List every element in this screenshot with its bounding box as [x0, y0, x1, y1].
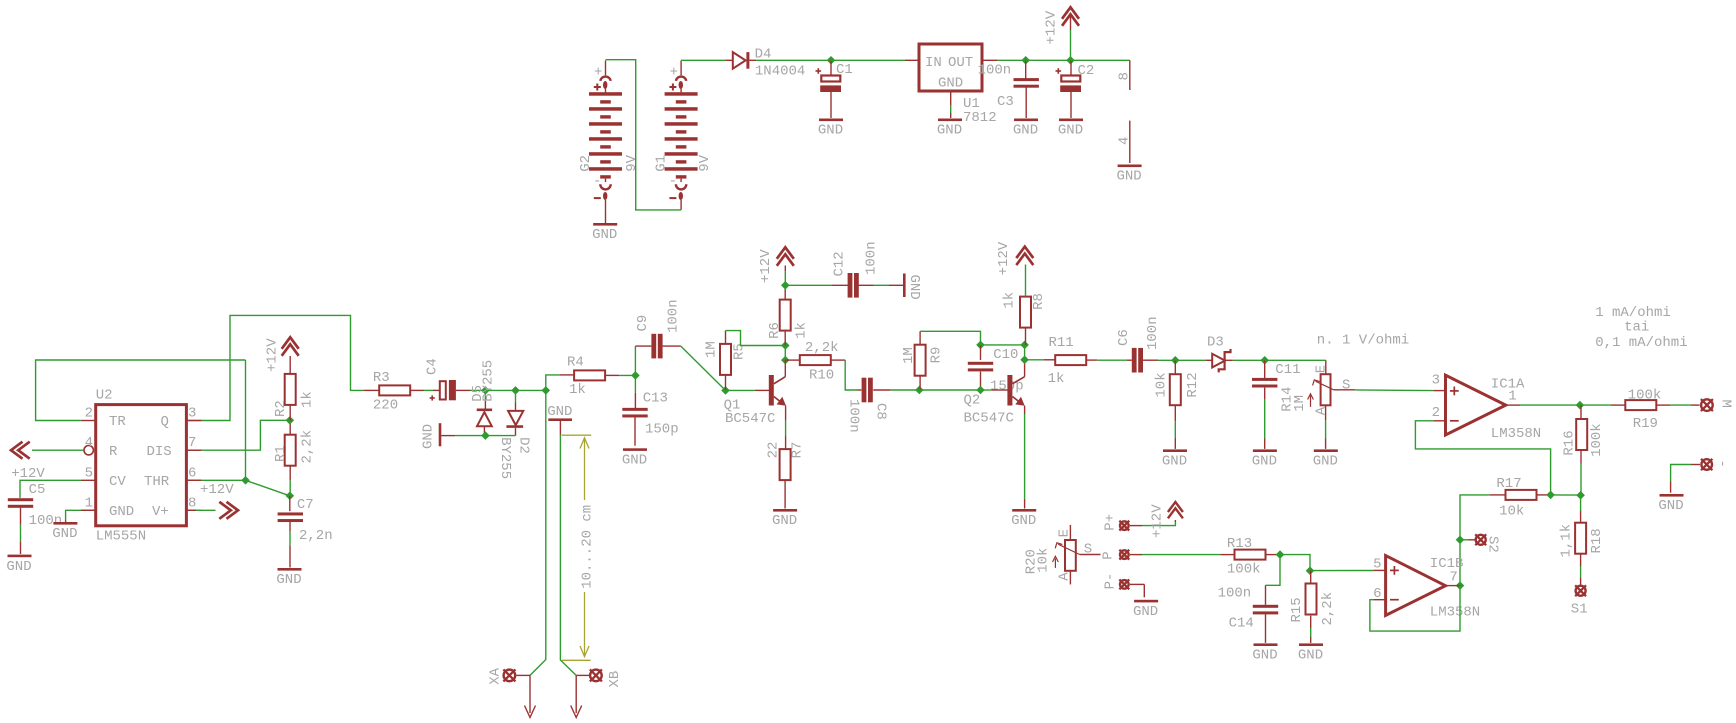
svg-text:BY255: BY255	[480, 360, 496, 402]
svg-text:P+: P+	[1103, 514, 1119, 531]
junction node R6 bottom	[781, 341, 790, 350]
resistor R2	[285, 356, 296, 420]
label n. 1 V/ohmi	[1317, 332, 1409, 348]
label +12V at P+	[1150, 504, 1166, 538]
diode D4	[726, 52, 757, 69]
resistor R19	[1625, 400, 1699, 410]
svg-text:-: -	[1714, 460, 1730, 468]
label C5	[29, 482, 46, 498]
label R3	[373, 370, 390, 386]
label C2	[1078, 63, 1095, 79]
svg-text:+12V: +12V	[1044, 10, 1060, 44]
capacitor C14	[1253, 605, 1278, 643]
ground GND at U1	[937, 119, 962, 139]
svg-text:S: S	[1084, 541, 1092, 557]
label R16 value 100k	[1589, 423, 1605, 457]
label D3	[1207, 335, 1224, 351]
svg-text:1M: 1M	[703, 341, 719, 358]
resistor R11	[1055, 355, 1097, 365]
label R12	[1185, 372, 1201, 397]
svg-text:100n: 100n	[846, 399, 862, 433]
ground GND rotated at C12	[903, 274, 906, 298]
svg-text:GND: GND	[592, 227, 617, 243]
label C8	[873, 403, 889, 420]
svg-text:1 mA/ohmi: 1 mA/ohmi	[1595, 305, 1671, 321]
ground GND at C14	[1252, 643, 1277, 663]
voltage regulator U1 7812	[919, 44, 982, 118]
label R19	[1633, 416, 1658, 432]
potentiometer R14	[1265, 360, 1356, 449]
wire C2 node to pin 8 stub	[1071, 59, 1130, 61]
pin number 3	[1432, 373, 1440, 389]
svg-text:IN: IN	[925, 55, 942, 71]
label S1	[1571, 602, 1588, 618]
potentiometer R20	[1053, 525, 1101, 585]
pad I and ground	[1671, 459, 1713, 493]
svg-text:150p: 150p	[645, 421, 679, 437]
svg-text:M: M	[1718, 400, 1734, 408]
label R1 value 2,2k	[300, 430, 316, 464]
junction node R12	[1171, 356, 1180, 365]
label R14 terminal A	[1313, 406, 1329, 415]
svg-text:R4: R4	[567, 355, 584, 371]
svg-text:Q: Q	[161, 414, 169, 430]
resistor R13	[1220, 550, 1280, 560]
label Q1 value BC547C	[725, 411, 775, 427]
label R9	[929, 347, 945, 364]
svg-text:E: E	[1313, 365, 1329, 373]
label R20 terminal A	[1057, 572, 1073, 581]
svg-text:BC547C: BC547C	[964, 410, 1014, 426]
svg-text:P: P	[1100, 551, 1116, 559]
label R11	[1049, 335, 1074, 351]
label C9	[635, 315, 651, 332]
svg-text:-: -	[669, 174, 677, 190]
label GND at C12	[906, 275, 922, 300]
svg-text:100n: 100n	[666, 299, 682, 333]
resistor R9	[915, 331, 926, 390]
label C6	[1116, 329, 1132, 346]
wire P- to ground	[1130, 584, 1145, 597]
svg-text:6: 6	[188, 465, 196, 481]
ground GND at pad I	[1658, 494, 1683, 514]
label G1	[653, 155, 669, 172]
label R13	[1227, 536, 1252, 552]
wire Q1 base	[726, 389, 755, 391]
pin number 4	[1117, 137, 1133, 145]
resistor R6	[780, 285, 791, 345]
wire R13 node to C14	[1266, 555, 1281, 605]
resistor R18	[1575, 495, 1586, 586]
wire C4 to D5 node	[470, 389, 485, 391]
wire R14 wiper to IC1A	[1355, 389, 1445, 392]
wire S2 node to IC1B out	[1459, 540, 1461, 586]
wire R8 node down	[1024, 345, 1026, 360]
resistor R7	[780, 449, 791, 480]
svg-text:2,2k: 2,2k	[1320, 592, 1336, 626]
pad XA	[503, 669, 515, 681]
battery G2	[589, 61, 622, 224]
label C3	[997, 94, 1014, 110]
svg-text:C8: C8	[873, 403, 889, 420]
svg-text:2: 2	[1432, 405, 1440, 421]
svg-text:U2: U2	[96, 388, 113, 404]
label C10	[993, 347, 1018, 363]
pin number 7	[1449, 569, 1457, 585]
resistor R16	[1576, 405, 1587, 495]
label Q2 value BC547C	[964, 410, 1014, 426]
svg-text:C7: C7	[297, 497, 314, 513]
label C11	[1275, 362, 1300, 378]
label R18	[1589, 528, 1605, 553]
pin number 8	[1117, 72, 1133, 80]
label +12V at R2	[265, 338, 281, 372]
label GND rotated	[421, 424, 437, 449]
label R14 terminal E	[1313, 365, 1329, 373]
svg-text:+12V: +12V	[265, 338, 281, 372]
label R14 value 1M	[1292, 395, 1308, 412]
junction node C3	[1021, 56, 1030, 65]
ground GND at R14	[1313, 449, 1338, 469]
label R5 value 1M	[703, 341, 719, 358]
junction node THR	[241, 476, 250, 485]
junction node C9	[631, 371, 640, 380]
wire U1 OUT to C3 node	[982, 59, 1026, 61]
label M	[1718, 400, 1734, 408]
svg-text:+12V: +12V	[11, 466, 45, 482]
label C7	[297, 497, 314, 513]
label R12 value 10k	[1154, 372, 1170, 397]
junction node D5 bottom	[481, 431, 490, 440]
svg-text:IC1B: IC1B	[1430, 556, 1464, 572]
label D5	[470, 385, 486, 402]
junction node Q1 base	[721, 386, 730, 395]
wire THR pin6	[186, 479, 245, 481]
svg-text:R15: R15	[1289, 597, 1305, 622]
diode D5	[477, 390, 492, 435]
ground GND at C7	[276, 568, 301, 588]
label R4	[567, 355, 584, 371]
label minus pad	[1714, 460, 1730, 468]
wire THR vertical net	[245, 360, 247, 480]
label R20 terminal E	[1057, 529, 1073, 537]
svg-text:100n: 100n	[1145, 316, 1161, 350]
svg-text:6: 6	[1373, 586, 1381, 602]
wire clip ground net	[455, 435, 515, 437]
label C9 value 100n	[666, 299, 682, 333]
svg-text:1k: 1k	[569, 382, 586, 398]
supply +12V at R8	[1016, 247, 1033, 266]
ground GND rotated at D5 D2	[439, 423, 456, 446]
junction node R8 bottom	[1020, 341, 1029, 350]
svg-text:1M: 1M	[901, 347, 917, 364]
label R14 terminal S	[1342, 378, 1350, 394]
label P	[1100, 551, 1116, 559]
wire R5 top to R6 node	[726, 331, 786, 346]
svg-text:GND: GND	[1298, 648, 1323, 664]
svg-text:GND: GND	[1252, 648, 1277, 664]
ground GND at C11	[1252, 449, 1277, 469]
resistor R10	[785, 355, 845, 365]
junction node Q2 collector	[1020, 356, 1029, 365]
label R6 value 1k	[794, 322, 810, 339]
svg-text:LM358N: LM358N	[1491, 426, 1541, 442]
label C3 value 100n	[978, 63, 1012, 79]
capacitor C6	[1132, 348, 1176, 373]
label R9 value 1M	[901, 347, 917, 364]
svg-text:R3: R3	[373, 370, 390, 386]
svg-text:100n: 100n	[864, 241, 880, 275]
ground GND at C5	[6, 555, 31, 575]
label G2	[578, 155, 594, 172]
svg-text:2,2k: 2,2k	[300, 430, 316, 464]
svg-text:tai: tai	[1624, 319, 1649, 335]
svg-text:3: 3	[1432, 373, 1440, 389]
svg-text:GND: GND	[52, 526, 77, 542]
label G1 value 9V	[697, 154, 713, 171]
svg-text:100n: 100n	[978, 63, 1012, 79]
ground GND at R12	[1162, 449, 1187, 469]
wire R12 node to D3	[1175, 359, 1212, 361]
supply +12V at P+	[1130, 502, 1183, 526]
wire R17 to R18 node	[1551, 494, 1581, 496]
junction node C11	[1260, 356, 1269, 365]
label R17 value 10k	[1499, 503, 1524, 519]
note 1 mA/ohmi	[1595, 305, 1671, 321]
junction node IC1B out	[1456, 581, 1465, 590]
label C12	[832, 251, 848, 276]
svg-text:7812: 7812	[963, 110, 997, 126]
note 0,1 mA/ohmi	[1595, 335, 1687, 351]
pad S1	[1575, 585, 1586, 596]
svg-text:S2: S2	[1485, 536, 1501, 553]
svg-text:1,1k: 1,1k	[1559, 524, 1575, 558]
ground GND at pin1	[52, 522, 77, 542]
op-amp IC1B	[1374, 556, 1460, 616]
label R17	[1496, 476, 1521, 492]
label R15	[1289, 597, 1305, 622]
junction node Q1 collector	[781, 356, 790, 365]
resistor R12	[1170, 360, 1181, 449]
svg-text:1M: 1M	[1292, 395, 1308, 412]
label R4 value 1k	[569, 382, 586, 398]
label S2	[1485, 536, 1501, 553]
ground GND at R15	[1298, 643, 1323, 663]
label C12 value 100n	[864, 241, 880, 275]
label D2 value BY255	[497, 437, 513, 479]
wire C8 to R9 node	[891, 389, 920, 391]
svg-text:C12: C12	[832, 251, 848, 276]
ground GND at probe	[547, 404, 572, 435]
supply +12V at pin4 R	[11, 442, 84, 459]
svg-text:R2: R2	[273, 400, 289, 417]
wire GND pin1 net	[66, 510, 96, 522]
label R6	[767, 322, 783, 339]
svg-text:9V: 9V	[697, 154, 713, 171]
wire TR pin2 net	[36, 360, 246, 421]
wire R7 to ground	[784, 480, 786, 508]
pad M	[1701, 399, 1713, 411]
svg-text:4: 4	[85, 435, 93, 451]
resistor R3	[379, 385, 410, 395]
svg-text:3: 3	[188, 406, 196, 422]
svg-text:GND: GND	[421, 424, 437, 449]
svg-text:R6: R6	[767, 322, 783, 339]
svg-text:+: +	[670, 65, 678, 81]
wire DIS pin7 net	[186, 420, 289, 450]
label XA	[488, 667, 504, 684]
svg-text:R19: R19	[1633, 416, 1658, 432]
label R11 value 1k	[1048, 371, 1065, 387]
resistor R1	[285, 420, 296, 496]
svg-text:R18: R18	[1589, 528, 1605, 553]
svg-text:GND: GND	[1011, 513, 1036, 529]
svg-text:C10: C10	[993, 347, 1018, 363]
svg-text:R7: R7	[790, 442, 806, 459]
svg-text:GND: GND	[906, 275, 922, 300]
wire Q pin3 net	[186, 315, 379, 420]
svg-text:4: 4	[1117, 137, 1133, 145]
svg-text:GND: GND	[937, 123, 962, 139]
svg-text:10k: 10k	[1499, 503, 1524, 519]
label +12V at R6	[758, 249, 774, 283]
wire Q2 emitter to ground	[1024, 406, 1026, 509]
svg-text:GND: GND	[938, 76, 963, 92]
pin number 1	[1508, 389, 1516, 405]
junction node C7	[286, 492, 295, 501]
wire R3 to C4	[410, 389, 440, 391]
junction node R13 right	[1276, 550, 1285, 559]
svg-text:GND: GND	[1252, 454, 1277, 470]
wire Q1 emitter to R7	[785, 406, 787, 449]
transistor Q1 BC547C	[755, 360, 786, 406]
label C14 value 100n	[1218, 586, 1252, 602]
pad P-	[1119, 579, 1129, 589]
svg-text:GND: GND	[109, 504, 134, 520]
svg-text:THR: THR	[144, 474, 170, 490]
wire D3 to C11 node	[1233, 359, 1265, 361]
svg-text:GND: GND	[622, 453, 647, 469]
supply +12V at R2	[282, 337, 299, 356]
svg-text:1k: 1k	[300, 391, 316, 408]
svg-text:220: 220	[373, 398, 398, 414]
svg-text:LM358N: LM358N	[1430, 604, 1480, 620]
junction node D2 top	[511, 386, 520, 395]
svg-text:R12: R12	[1185, 372, 1201, 397]
svg-text:R10: R10	[809, 367, 834, 383]
wire IC1B feedback	[1370, 586, 1460, 632]
svg-text:5: 5	[85, 465, 93, 481]
label P-	[1103, 573, 1119, 590]
label R5	[732, 343, 748, 360]
label R10	[809, 367, 834, 383]
svg-text:1N4004: 1N4004	[755, 64, 805, 80]
svg-text:5: 5	[1373, 557, 1381, 573]
probe arrow XB	[571, 675, 582, 717]
label C1	[836, 62, 853, 78]
wire D2 node to R4 corner	[516, 389, 546, 391]
diode D2	[506, 390, 523, 435]
svg-text:R11: R11	[1049, 335, 1074, 351]
svg-text:OUT: OUT	[948, 55, 973, 71]
svg-text:R16: R16	[1562, 430, 1578, 455]
svg-text:7: 7	[188, 435, 196, 451]
wire R9 top to C10 node	[920, 331, 980, 345]
svg-text:100k: 100k	[1589, 423, 1605, 457]
supply +12V at R6	[777, 247, 794, 285]
resistor R15	[1306, 571, 1317, 643]
label C13	[643, 390, 668, 406]
svg-text:100n: 100n	[1218, 586, 1252, 602]
label U1 value 7812	[963, 110, 997, 126]
label R1	[273, 445, 289, 462]
svg-text:C5: C5	[29, 482, 46, 498]
pad S2	[1475, 534, 1486, 545]
svg-text:n. 1 V/ohmi: n. 1 V/ohmi	[1317, 332, 1409, 348]
label Q1	[724, 398, 741, 414]
svg-text:R: R	[109, 444, 118, 460]
junction node corner	[542, 386, 551, 395]
svg-text:GND: GND	[276, 572, 301, 588]
svg-text:S1: S1	[1571, 602, 1588, 618]
svg-text:1: 1	[85, 495, 93, 511]
wire R9 node to Q2 base	[919, 389, 1008, 391]
label Q2	[964, 392, 981, 408]
wire to R19	[1580, 404, 1625, 406]
label XB	[607, 671, 623, 688]
svg-text:GND: GND	[1058, 123, 1083, 139]
wire to pad S2	[1460, 539, 1476, 541]
svg-text:E: E	[1057, 529, 1073, 537]
label R7	[790, 442, 806, 459]
junction node R18 top	[1576, 491, 1585, 500]
label R8	[1031, 293, 1047, 310]
label D4 value 1N4004	[755, 64, 805, 80]
capacitor C11	[1252, 360, 1277, 449]
capacitor C5	[8, 498, 33, 554]
ground GND at R7	[772, 509, 797, 529]
junction node R17 right	[1546, 491, 1555, 500]
capacitor C1	[816, 60, 842, 118]
svg-text:C2: C2	[1078, 63, 1095, 79]
label C8 value 100n	[846, 399, 862, 433]
svg-text:2: 2	[85, 406, 93, 422]
pin number 6	[1373, 586, 1381, 602]
label R2	[273, 400, 289, 417]
svg-text:TR: TR	[109, 414, 126, 430]
svg-text:D3: D3	[1207, 335, 1224, 351]
junction node C1	[827, 56, 836, 65]
wire R17 left to S2 node	[1460, 495, 1490, 540]
wire R15 node to IC1B pin5	[1310, 570, 1374, 572]
svg-text:8: 8	[188, 495, 196, 511]
capacitor C9	[635, 334, 680, 376]
label C5 value 100n	[29, 513, 63, 529]
label IC1B	[1430, 556, 1464, 572]
svg-text:+: +	[594, 65, 602, 81]
label U1	[963, 96, 980, 112]
label R20	[1024, 549, 1040, 574]
svg-text:GND: GND	[1313, 454, 1338, 470]
label D4	[755, 46, 772, 62]
label C7 value 2,2n	[299, 528, 333, 544]
svg-text:C4: C4	[425, 358, 441, 375]
svg-text:C3: C3	[997, 94, 1014, 110]
label +12V at pin8	[200, 482, 234, 498]
label R18 value 1,1k	[1559, 524, 1575, 558]
svg-text:-: -	[593, 174, 601, 190]
junction node D5 top	[481, 386, 490, 395]
